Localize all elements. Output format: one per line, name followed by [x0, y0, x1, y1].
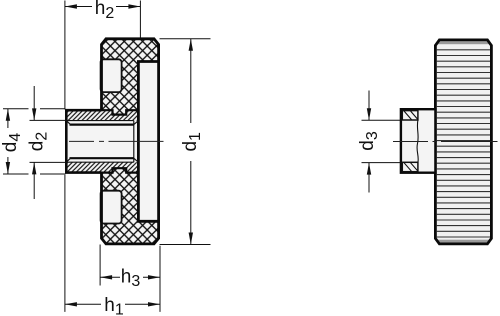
knurl gray bands: [437, 41, 490, 44]
wheel side outline: [435, 40, 491, 244]
knurl lines: [437, 50, 490, 237]
svg-text:h1: h1: [104, 295, 124, 316]
bushing boundary with notch lower: [102, 168, 139, 172]
plastic section upper (crosshatch): [101, 39, 159, 115]
recess right (void): [140, 63, 157, 220]
wheel side base: [435, 40, 491, 244]
centerline right view: [393, 141, 498, 143]
svg-text:d4: d4: [0, 133, 24, 153]
svg-text:d3: d3: [357, 131, 381, 151]
hub base fill: [66, 110, 101, 172]
steel bushing upper wall (single hatch): [66, 110, 138, 120]
h3 dimension: [100, 245, 160, 286]
cap inner edges + web line: [138, 62, 158, 222]
wheel outline thick: [102, 39, 159, 244]
serration band top: [402, 111, 418, 120]
h2 dimension: [65, 1, 140, 110]
svg-text:h2: h2: [95, 0, 115, 22]
bore lines thick: [70, 125, 134, 159]
thread crest thin lines: [66, 121, 134, 163]
bore end vertical + chamfers: [66, 121, 138, 163]
serration band bottom: [402, 162, 418, 171]
hub side view: [401, 109, 436, 173]
svg-text:d2: d2: [27, 132, 51, 152]
steel bushing lower wall (single hatch): [66, 162, 138, 172]
svg-text:h3: h3: [121, 266, 141, 290]
d1 dimension: [160, 39, 211, 245]
pocket voids: [101, 59, 122, 92]
plastic section lower (crosshatch): [101, 168, 159, 244]
d4 dimension: [3, 109, 66, 174]
svg-text:d1: d1: [180, 132, 204, 152]
bushing boundary with notch upper: [102, 110, 139, 114]
d3 dimension: [362, 91, 401, 193]
wheel body base fill: [102, 39, 159, 244]
hub outline thick: [66, 110, 101, 172]
h1 dimension: [65, 175, 160, 312]
d2 dimension: [30, 86, 67, 199]
wavy transition line: [417, 120, 418, 162]
centerline left view: [69, 140, 164, 142]
